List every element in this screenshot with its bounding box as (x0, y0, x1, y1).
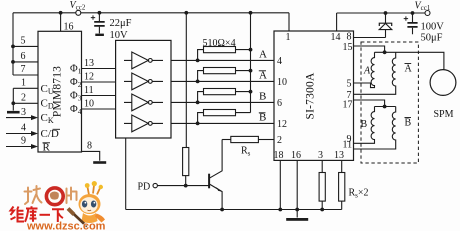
junction R1 row (196, 59, 200, 63)
svg-text:14: 14 (331, 32, 341, 43)
wire CU-CD ground tie (12, 88, 14, 110)
watermark mascot stick (70, 211, 87, 227)
wire pin 8 (354, 37, 386, 39)
wire pull-up bus riser (250, 13, 252, 113)
svg-text:8: 8 (347, 31, 352, 42)
resistor R6 sense (321, 160, 323, 209)
wire pin 1 (13, 87, 38, 89)
junction PD pull-up (184, 184, 188, 188)
svg-text:16: 16 (291, 150, 301, 161)
svg-text:B: B (361, 119, 368, 130)
junction pin5 (11, 45, 15, 49)
svg-text:Φ3: Φ3 (70, 91, 82, 103)
junction R2 row (196, 80, 200, 84)
resistor R2 510ohm (198, 71, 251, 82)
resistor R4 510ohm (198, 113, 251, 124)
svg-text:15: 15 (343, 42, 353, 53)
svg-text:11: 11 (343, 139, 353, 150)
resistor R1 510ohm (198, 50, 251, 61)
svg-text:10: 10 (84, 99, 94, 110)
wire pin 7 (13, 74, 38, 76)
watermark mascot head (79, 194, 101, 214)
wire pin 8 to ground (82, 151, 100, 160)
arrowhead pin3 (31, 115, 38, 120)
svg-text:13: 13 (334, 150, 344, 161)
wire riser to PD pull-up (185, 13, 187, 148)
svg-text:R: R (43, 142, 51, 154)
watermark magnifier ring (46, 188, 63, 205)
wire row A-bar (171, 80, 274, 82)
transistor Q1 collector (209, 140, 222, 179)
svg-text:Φ4: Φ4 (70, 104, 82, 116)
junction emitter rail (220, 208, 224, 212)
capacitor C1 plates (94, 22, 105, 26)
wire pin 16 (60, 13, 62, 32)
terminal PD (153, 183, 157, 187)
capacitor C1 22uF lead (98, 13, 100, 34)
wire phi4 from pin 10 (82, 108, 116, 110)
wire row B (171, 101, 274, 103)
svg-text:www.dzsc.com: www.dzsc.com (26, 220, 106, 231)
inverter U2b (124, 73, 163, 90)
junction pin18 rail (278, 208, 282, 212)
junction pin16 rail (59, 11, 63, 15)
ground bar G3 (286, 218, 308, 221)
svg-text:B: B (259, 91, 266, 103)
terminal Vcc2 (76, 10, 81, 15)
svg-text:A: A (405, 63, 413, 74)
svg-text:B: B (259, 112, 266, 124)
resistor Rs (231, 136, 259, 142)
wire pin 14 riser (336, 13, 338, 31)
svg-text:6: 6 (21, 51, 26, 62)
svg-text:PMM8713: PMM8713 (52, 66, 64, 117)
power rail Vcc1 (337, 12, 428, 14)
svg-text:Vcc2: Vcc2 (70, 0, 86, 12)
svg-text:3: 3 (21, 107, 26, 118)
wire pin 2 (13, 102, 38, 104)
wire pin 4 C/D input (6, 133, 32, 135)
watermark red text wei-ku-yi-xia (11, 206, 65, 222)
wire winding pair B top (375, 106, 396, 108)
junction pin17 winding (383, 105, 387, 109)
svg-text:2: 2 (21, 93, 26, 104)
svg-text:22μF: 22μF (110, 18, 132, 29)
buffer box U2 (116, 40, 171, 138)
svg-text:16: 16 (64, 22, 74, 33)
svg-text:Rs: Rs (241, 146, 251, 158)
svg-text:50μF: 50μF (421, 32, 443, 43)
wire pin 18 riser (279, 160, 281, 209)
transistor Q1 emitter (209, 184, 222, 210)
svg-text:Φ2: Φ2 (70, 77, 82, 89)
junction R4 row (196, 122, 200, 126)
junction D1 rail (384, 11, 388, 15)
junction pin15 winding (383, 50, 387, 54)
diode D1 leads (385, 13, 387, 38)
wire pin 1 riser (288, 13, 290, 31)
resistor R3 510ohm (198, 92, 251, 103)
watermark mascot body (82, 213, 98, 223)
junction C1 rail (98, 11, 102, 15)
ground bar C1 (95, 34, 104, 36)
svg-text:C/D: C/D (41, 128, 59, 140)
IC U1 PMM8713 (38, 31, 82, 152)
ground bar G1 (7, 111, 20, 114)
svg-text:8: 8 (87, 141, 92, 152)
power rail Vcc2 (13, 12, 289, 14)
diode D1 triangle (379, 23, 392, 29)
junction pin6 (11, 60, 15, 64)
svg-text:Vcc1: Vcc1 (415, 0, 431, 12)
capacitor C2 leads (412, 13, 414, 34)
svg-text:SI-7300A: SI-7300A (305, 72, 317, 119)
arrowhead pin9 (31, 144, 38, 149)
junction R2 bus (249, 69, 253, 73)
capacitor C2 plus sign (404, 16, 408, 20)
svg-text:4: 4 (21, 123, 26, 134)
svg-text:10: 10 (277, 77, 287, 88)
resistor R5 pull-up (183, 148, 189, 176)
junction R1 bus (249, 48, 253, 52)
svg-text:SPM: SPM (434, 109, 454, 120)
watermark mascot eyes (82, 201, 87, 208)
wire pin 15 (354, 46, 385, 52)
junction riser1 rail (184, 11, 188, 15)
wire pin 3 CK input (6, 117, 32, 119)
winding A (354, 52, 375, 87)
ground G3 stub (296, 210, 298, 218)
svg-text:9: 9 (21, 136, 26, 147)
resistor R7 sense (341, 160, 343, 209)
svg-text:A: A (363, 66, 371, 77)
junction pin2 (11, 101, 15, 105)
svg-text:Φ1: Φ1 (70, 64, 82, 76)
svg-text:18: 18 (274, 150, 284, 161)
svg-text:100V: 100V (421, 22, 445, 33)
svg-text:PD: PD (138, 181, 151, 192)
wire PD to base (157, 185, 209, 187)
svg-text:1: 1 (286, 32, 291, 43)
IC U3 SI-7300A (274, 31, 354, 160)
watermark outlined text zhao-xin-pian (25, 186, 77, 204)
svg-text:3: 3 (318, 150, 323, 161)
wire pin 9 R input (6, 146, 32, 148)
svg-text:510Ω×4: 510Ω×4 (203, 38, 236, 49)
wire pin 6 (13, 61, 38, 63)
wire pin 17 (354, 100, 385, 107)
wire pin 5 (13, 45, 38, 47)
svg-text:A: A (259, 70, 267, 82)
wire pin 16b riser (296, 160, 298, 209)
motor dashed box (361, 42, 418, 163)
svg-text:B: B (405, 117, 412, 128)
wire phi1 from pin 13 (82, 68, 116, 70)
svg-text:A: A (259, 49, 267, 61)
winding B (354, 107, 375, 144)
arrowhead pin4 (31, 131, 38, 136)
winding A-bar (354, 52, 396, 94)
svg-text:5: 5 (21, 36, 26, 47)
arrowhead Q1 emitter (216, 187, 222, 192)
capacitor C1 plus sign (91, 15, 95, 19)
junction R6 rail (320, 208, 324, 212)
inverter U2a (124, 52, 163, 69)
svg-text:1: 1 (21, 78, 26, 89)
bottom ground rail (126, 209, 342, 211)
inverter U2c (124, 94, 163, 111)
svg-text:2: 2 (277, 135, 282, 146)
inverter U2d (124, 115, 163, 132)
transistor Q1 base bar (208, 174, 210, 189)
junction R3 bus (249, 90, 253, 94)
svg-text:10V: 10V (110, 30, 129, 41)
WATERMARK (11, 181, 106, 232)
svg-text:5: 5 (347, 78, 352, 89)
svg-text:6: 6 (277, 98, 282, 109)
wire winding pair AB top to SPM (375, 52, 444, 69)
terminal Vcc1 (425, 11, 430, 16)
wire left tie rail pins 5,6,7 (12, 13, 14, 75)
wire row A (171, 59, 274, 61)
ground bar G2 pin8 (93, 161, 106, 164)
svg-text:11: 11 (84, 85, 94, 96)
wire phi2 from pin 12 (82, 81, 116, 83)
svg-text:Rs×2: Rs×2 (349, 188, 369, 200)
junction C2 rail (411, 11, 415, 15)
wire row B-bar (171, 122, 274, 124)
winding B-bar (354, 107, 396, 150)
svg-text:12: 12 (84, 72, 94, 83)
svg-text:17: 17 (343, 100, 353, 111)
watermark mascot crown (88, 186, 101, 196)
wire pin 2 from Rx (258, 139, 274, 141)
junction riser2 rail (249, 11, 253, 15)
svg-text:7: 7 (21, 64, 26, 75)
junction pin16b rail (295, 208, 299, 212)
svg-text:4: 4 (277, 56, 282, 67)
motor SPM (430, 70, 456, 96)
junction R3 row (196, 101, 200, 105)
capacitor C2 plates (407, 23, 417, 27)
diode D1 zener bar (379, 23, 391, 26)
svg-text:13: 13 (84, 58, 94, 69)
wire phi3 from pin 11 (82, 95, 116, 97)
svg-text:12: 12 (277, 119, 287, 130)
wire buffer box ground drop (125, 138, 127, 210)
